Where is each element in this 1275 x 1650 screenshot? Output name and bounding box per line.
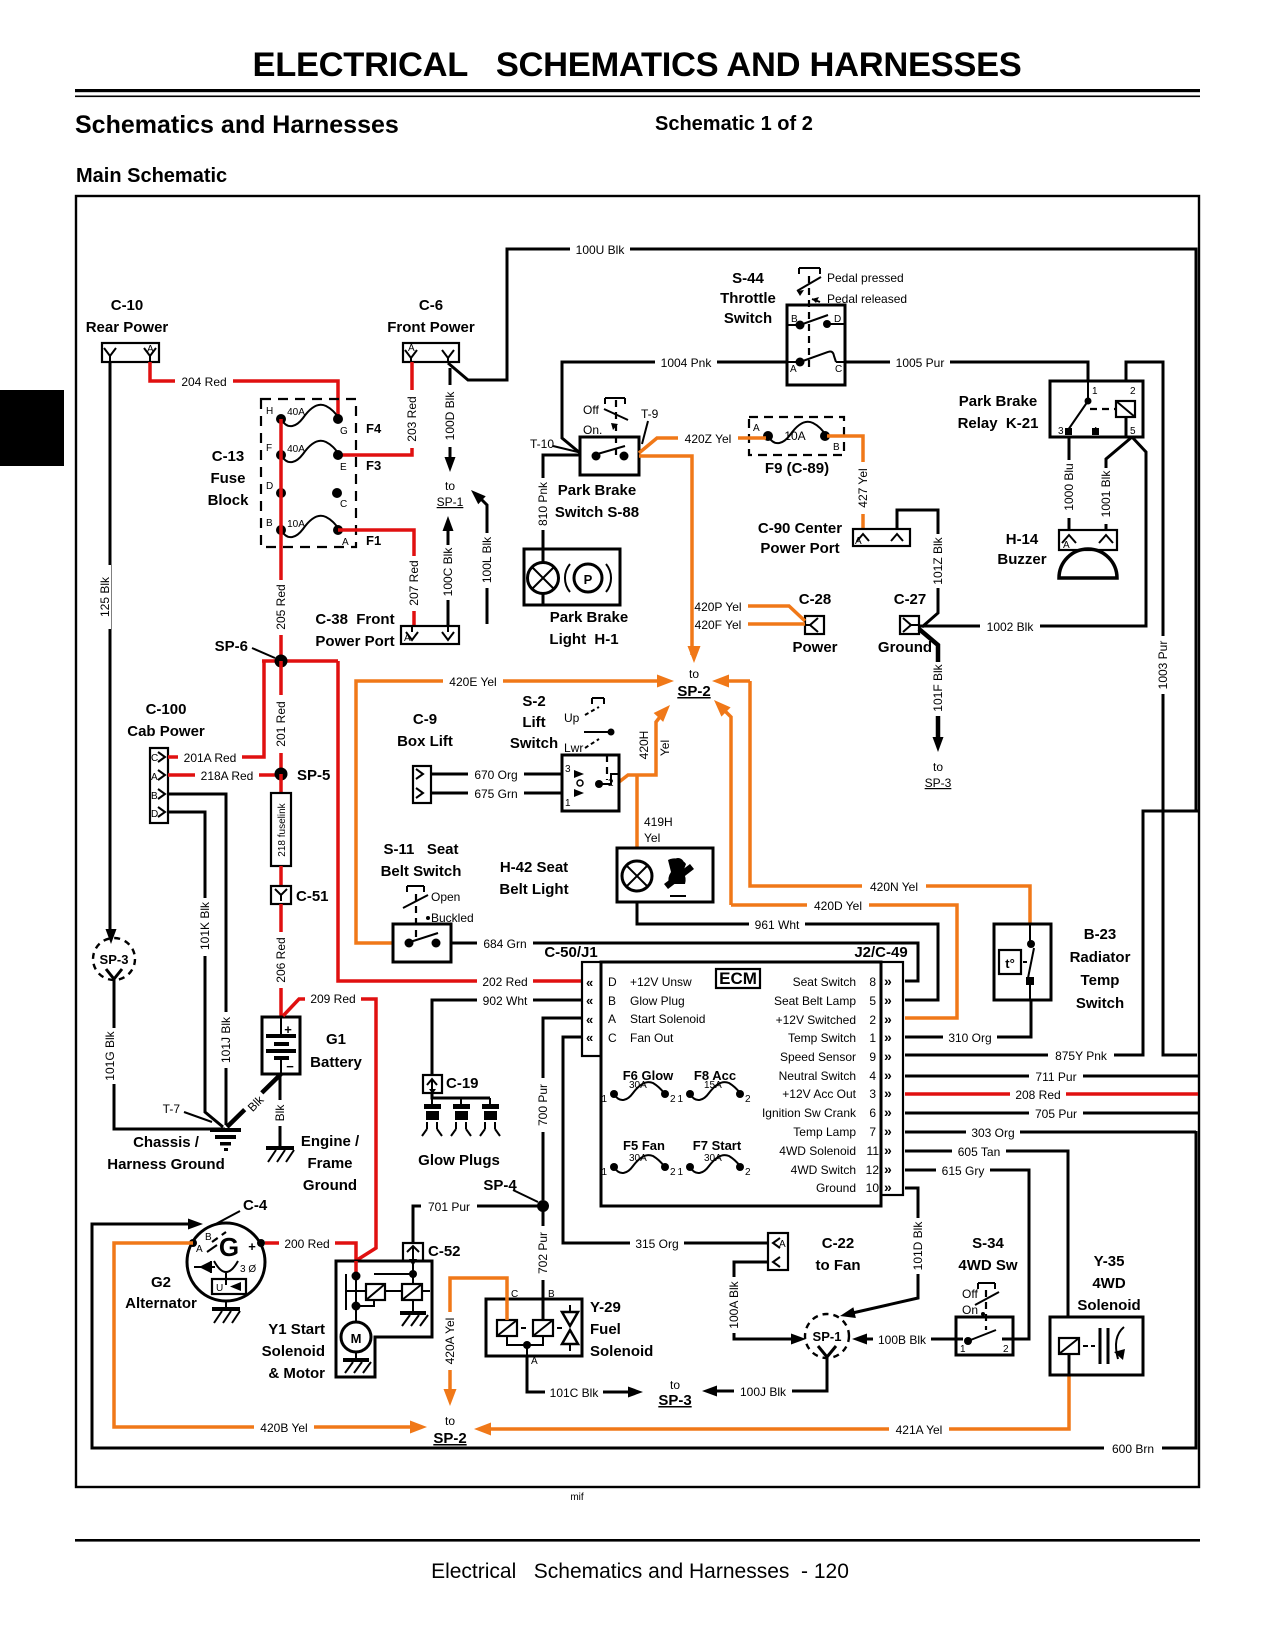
svg-text:Fuel: Fuel bbox=[590, 1321, 621, 1338]
svg-text:+12V Switched: +12V Switched bbox=[776, 1013, 856, 1027]
svg-text:100C Blk: 100C Blk bbox=[441, 547, 455, 597]
svg-text:C-4: C-4 bbox=[243, 1197, 268, 1214]
svg-text:420E Yel: 420E Yel bbox=[449, 675, 496, 689]
svg-text:F: F bbox=[266, 443, 272, 454]
svg-text:205 Red: 205 Red bbox=[274, 584, 288, 629]
svg-text:100J Blk: 100J Blk bbox=[740, 1385, 787, 1399]
svg-text:Seat Belt Lamp: Seat Belt Lamp bbox=[774, 994, 856, 1008]
alternator G2 bbox=[125, 1197, 268, 1323]
svg-text:H-14: H-14 bbox=[1006, 531, 1039, 548]
svg-text:Y-29: Y-29 bbox=[590, 1299, 621, 1316]
connector C-38 Front Power Port bbox=[315, 611, 459, 650]
svg-text:Solenoid: Solenoid bbox=[262, 1343, 325, 1360]
4WD switch S-34 bbox=[956, 1235, 1018, 1355]
battery G1 bbox=[262, 1017, 363, 1074]
throttle switch S-44 bbox=[720, 268, 907, 385]
wire 875Y Pnk label bbox=[1048, 1048, 1114, 1063]
svg-text:H: H bbox=[266, 406, 273, 417]
connector C-51 bbox=[271, 866, 329, 905]
svg-text:B: B bbox=[548, 1289, 555, 1300]
svg-text:»: » bbox=[884, 1048, 892, 1064]
svg-text:J2/C-49: J2/C-49 bbox=[854, 944, 907, 961]
svg-text:»: » bbox=[884, 992, 892, 1008]
wire 1003 Pur bbox=[1126, 362, 1197, 1055]
svg-text:»: » bbox=[884, 1142, 892, 1158]
svg-text:30A: 30A bbox=[629, 1153, 647, 1164]
svg-text:1: 1 bbox=[1092, 386, 1098, 397]
svg-text:Electrical Schematics and Ha: Electrical Schematics and Harnesses - 12… bbox=[431, 1560, 849, 1583]
wire 420P Yel bbox=[688, 599, 805, 621]
wire 675 Grn bbox=[431, 786, 562, 801]
svg-text:Power Port: Power Port bbox=[760, 540, 839, 557]
svg-text:810 Pnk: 810 Pnk bbox=[536, 481, 550, 526]
svg-text:310 Org: 310 Org bbox=[948, 1031, 991, 1045]
svg-text:A: A bbox=[855, 536, 862, 547]
svg-text:C-27: C-27 bbox=[894, 591, 927, 608]
svg-text:Switch: Switch bbox=[510, 735, 558, 752]
svg-text:& Motor: & Motor bbox=[268, 1365, 325, 1382]
wire 100B Blk bbox=[852, 1332, 963, 1347]
wire 615 Gry bbox=[905, 1163, 1029, 1339]
wire 1005 Pur bbox=[845, 355, 1088, 381]
connector C-10 Rear Power bbox=[86, 297, 169, 362]
svg-text:Off: Off bbox=[962, 1287, 978, 1301]
wire 303 Org bbox=[905, 1125, 1196, 1140]
svg-text:»: » bbox=[884, 1067, 892, 1083]
svg-text:F1: F1 bbox=[366, 533, 381, 548]
svg-text:F5 Fan: F5 Fan bbox=[623, 1138, 665, 1153]
wire 670 Org bbox=[431, 767, 562, 782]
svg-text:600 Brn: 600 Brn bbox=[1112, 1442, 1154, 1456]
svg-text:101D Blk: 101D Blk bbox=[911, 1221, 925, 1271]
svg-text:Blk: Blk bbox=[273, 1104, 287, 1122]
svg-text:A: A bbox=[608, 1012, 616, 1026]
title double rule bbox=[75, 89, 1200, 92]
svg-text:1: 1 bbox=[677, 1094, 683, 1105]
svg-text:420H: 420H bbox=[637, 731, 651, 760]
svg-text:SP-3: SP-3 bbox=[925, 776, 952, 790]
svg-text:SP-5: SP-5 bbox=[297, 767, 330, 784]
svg-text:Temp: Temp bbox=[1081, 972, 1120, 989]
engine / frame ground bbox=[266, 1133, 360, 1194]
svg-text:A: A bbox=[790, 364, 797, 375]
svg-text:420P Yel: 420P Yel bbox=[694, 600, 741, 614]
svg-text:B: B bbox=[833, 442, 840, 453]
wire 419H Yel bbox=[637, 775, 673, 848]
ECM fuse F5 Fan bbox=[601, 1138, 676, 1178]
connector C-22 to Fan bbox=[768, 1233, 861, 1274]
svg-text:2: 2 bbox=[745, 1094, 751, 1105]
svg-text:Temp Lamp: Temp Lamp bbox=[793, 1125, 856, 1139]
splice SP-3 bbox=[93, 938, 135, 990]
svg-text:»: » bbox=[884, 1085, 892, 1101]
svg-text:100U Blk: 100U Blk bbox=[576, 243, 626, 257]
svg-text:SP-3: SP-3 bbox=[658, 1392, 691, 1409]
svg-text:C-51: C-51 bbox=[296, 888, 329, 905]
wire 427 Yel bbox=[827, 436, 870, 529]
svg-text:to: to bbox=[445, 1414, 455, 1428]
park brake switch S-88 bbox=[530, 398, 659, 521]
svg-text:8: 8 bbox=[869, 975, 876, 989]
svg-text:Schematic 1 of 2: Schematic 1 of 2 bbox=[655, 113, 813, 135]
connector C-52 bbox=[403, 1243, 461, 1266]
svg-text:Park Brake: Park Brake bbox=[959, 393, 1037, 410]
svg-text:Ground: Ground bbox=[816, 1181, 856, 1195]
svg-text:Throttle: Throttle bbox=[720, 290, 776, 307]
svg-text:3: 3 bbox=[565, 764, 571, 775]
svg-text:4WD: 4WD bbox=[1092, 1275, 1126, 1292]
svg-text:«: « bbox=[586, 993, 593, 1008]
svg-text:SP-2: SP-2 bbox=[433, 1430, 466, 1447]
wire 1002 Blk bbox=[920, 437, 1146, 634]
svg-text:1000 Blu: 1000 Blu bbox=[1062, 463, 1076, 510]
node to SP-3 bottom bbox=[658, 1378, 691, 1409]
wire 605 Tan bbox=[905, 1144, 1068, 1317]
wire 701 Pur bbox=[413, 1199, 543, 1243]
svg-text:F3: F3 bbox=[366, 458, 381, 473]
svg-text:Relay K-21: Relay K-21 bbox=[958, 415, 1039, 432]
wire 420N Yel bbox=[712, 675, 1030, 925]
svg-text:Power Port: Power Port bbox=[315, 633, 394, 650]
svg-text:4: 4 bbox=[869, 1069, 876, 1083]
svg-text:Speed Sensor: Speed Sensor bbox=[780, 1050, 856, 1064]
svg-text:+12V Acc Out: +12V Acc Out bbox=[782, 1087, 856, 1101]
fuselink 218 bbox=[271, 774, 291, 866]
wire 202 Red bbox=[338, 661, 582, 989]
svg-text:C-28: C-28 bbox=[799, 591, 832, 608]
cab power connector C-100 bbox=[127, 701, 205, 823]
svg-text:mif: mif bbox=[570, 1492, 584, 1503]
wire 100L Blk bbox=[467, 486, 494, 624]
svg-text:+12V Unsw: +12V Unsw bbox=[630, 975, 692, 989]
svg-text:A: A bbox=[151, 772, 158, 783]
svg-text:C-50/J1: C-50/J1 bbox=[544, 944, 597, 961]
wire 101F Blk bbox=[919, 629, 952, 790]
svg-text:1005 Pur: 1005 Pur bbox=[896, 356, 945, 370]
svg-text:Solenoid: Solenoid bbox=[1077, 1297, 1140, 1314]
svg-text:701 Pur: 701 Pur bbox=[428, 1200, 470, 1214]
svg-text:to: to bbox=[445, 479, 455, 493]
svg-text:SP-1: SP-1 bbox=[437, 495, 464, 509]
node to SP-1 bbox=[437, 479, 464, 509]
svg-text:On.: On. bbox=[583, 423, 602, 437]
svg-text:2: 2 bbox=[1003, 1344, 1009, 1355]
svg-text:SP-2: SP-2 bbox=[677, 683, 710, 700]
svg-text:30A: 30A bbox=[629, 1080, 647, 1091]
svg-text:Switch S-88: Switch S-88 bbox=[555, 504, 639, 521]
svg-text:C: C bbox=[608, 1031, 617, 1045]
wire 810 Pnk bbox=[536, 455, 580, 564]
svg-text:»: » bbox=[884, 973, 892, 989]
svg-text:T-9: T-9 bbox=[641, 407, 659, 421]
wire 101G Blk bbox=[103, 988, 225, 1129]
svg-text:303 Org: 303 Org bbox=[971, 1126, 1014, 1140]
svg-text:101J Blk: 101J Blk bbox=[219, 1016, 233, 1063]
svg-text:12: 12 bbox=[866, 1163, 880, 1177]
svg-text:Belt Switch: Belt Switch bbox=[381, 863, 462, 880]
svg-text:Seat Switch: Seat Switch bbox=[793, 975, 856, 989]
svg-text:201A Red: 201A Red bbox=[184, 751, 237, 765]
svg-text:C-22: C-22 bbox=[822, 1235, 855, 1252]
wire 100U Blk bbox=[448, 242, 1198, 1055]
svg-text:Solenoid: Solenoid bbox=[590, 1343, 653, 1360]
svg-text:»: » bbox=[884, 1029, 892, 1045]
ECM connector C-50/J1 pins bbox=[582, 962, 705, 1056]
svg-text:Power: Power bbox=[792, 639, 837, 656]
svg-text:Buzzer: Buzzer bbox=[997, 551, 1046, 568]
svg-text:1: 1 bbox=[601, 1167, 607, 1178]
park brake relay K-21 bbox=[958, 381, 1143, 437]
svg-text:125 Blk: 125 Blk bbox=[98, 576, 112, 617]
wire 218A Red bbox=[168, 768, 281, 783]
svg-text:1002 Blk: 1002 Blk bbox=[987, 620, 1035, 634]
svg-text:218A Red: 218A Red bbox=[201, 769, 254, 783]
svg-text:C-52: C-52 bbox=[428, 1243, 461, 1260]
wire 315 Org bbox=[563, 1037, 768, 1251]
svg-text:F7 Start: F7 Start bbox=[693, 1138, 742, 1153]
connector C-27 Ground bbox=[878, 591, 932, 656]
svg-text:Temp Switch: Temp Switch bbox=[788, 1031, 856, 1045]
svg-text:SP-6: SP-6 bbox=[215, 638, 248, 655]
svg-text:421A Yel: 421A Yel bbox=[896, 1423, 943, 1437]
wire 101J Blk bbox=[168, 794, 233, 1125]
svg-text:Ignition Sw Crank: Ignition Sw Crank bbox=[762, 1106, 857, 1120]
svg-text:1: 1 bbox=[960, 1344, 966, 1355]
schematic border bbox=[76, 196, 1199, 1487]
svg-text:S-11 Seat: S-11 Seat bbox=[383, 841, 458, 858]
svg-text:1: 1 bbox=[565, 798, 571, 809]
svg-text:208 Red: 208 Red bbox=[1015, 1088, 1060, 1102]
svg-text:30A: 30A bbox=[704, 1153, 722, 1164]
wire 205 Red fuse rail bbox=[274, 419, 288, 661]
svg-text:1004 Pnk: 1004 Pnk bbox=[661, 356, 713, 370]
wire 207 Red bbox=[338, 530, 421, 626]
svg-text:A: A bbox=[753, 423, 760, 434]
svg-text:203 Red: 203 Red bbox=[405, 396, 419, 441]
svg-text:420F Yel: 420F Yel bbox=[695, 618, 742, 632]
wire 310 Org bbox=[905, 1000, 1031, 1045]
svg-text:9: 9 bbox=[869, 1050, 876, 1064]
svg-text:B: B bbox=[266, 518, 273, 529]
wire 711 Pur bbox=[905, 1069, 1198, 1084]
svg-text:3: 3 bbox=[869, 1087, 876, 1101]
svg-text:«: « bbox=[586, 1030, 593, 1045]
svg-text:615 Gry: 615 Gry bbox=[942, 1164, 985, 1178]
svg-text:A: A bbox=[404, 633, 411, 644]
svg-text:Light H-1: Light H-1 bbox=[549, 631, 618, 648]
svg-text:7: 7 bbox=[869, 1125, 876, 1139]
wire 101K Blk bbox=[168, 812, 223, 1127]
node SP-6 bbox=[215, 638, 338, 668]
svg-text:2: 2 bbox=[745, 1167, 751, 1178]
svg-text:419H: 419H bbox=[644, 815, 673, 829]
wire 420F Yel bbox=[688, 617, 805, 632]
svg-text:2: 2 bbox=[869, 1013, 876, 1027]
svg-text:ELECTRICAL SCHEMATICS AND HA: ELECTRICAL SCHEMATICS AND HARNESSES bbox=[252, 46, 1021, 84]
svg-text:T-10: T-10 bbox=[530, 437, 554, 451]
svg-text:«: « bbox=[586, 975, 593, 990]
svg-text:100A Blk: 100A Blk bbox=[727, 1280, 741, 1328]
svg-text:5: 5 bbox=[1130, 426, 1136, 437]
wire 1001 Blk bbox=[1099, 437, 1132, 530]
node SP-4 bbox=[483, 1177, 549, 1212]
wire 100J Blk bbox=[702, 1366, 827, 1399]
svg-text:F4: F4 bbox=[366, 421, 382, 436]
svg-text:B: B bbox=[205, 1232, 212, 1243]
connector C-9 Box Lift bbox=[397, 711, 453, 803]
svg-text:4WD Sw: 4WD Sw bbox=[958, 1257, 1018, 1274]
svg-text:3 Ø: 3 Ø bbox=[240, 1264, 256, 1275]
svg-text:»: » bbox=[884, 1179, 892, 1195]
svg-text:+: + bbox=[248, 1239, 256, 1254]
svg-text:1001 Blk: 1001 Blk bbox=[1099, 470, 1113, 518]
svg-text:Radiator: Radiator bbox=[1070, 949, 1131, 966]
svg-text:101K Blk: 101K Blk bbox=[198, 901, 212, 950]
wire 100D Blk bbox=[443, 368, 457, 472]
svg-text:P: P bbox=[584, 572, 593, 587]
svg-text:207 Red: 207 Red bbox=[407, 560, 421, 605]
ECM connector J2/C-49 pins bbox=[762, 962, 903, 1195]
wire 961 Wht bbox=[637, 902, 938, 1000]
ECM module bbox=[544, 944, 907, 1206]
wire 700 Pur bbox=[536, 1018, 582, 1200]
connector C-6 Front Power bbox=[387, 297, 475, 362]
svg-text:B: B bbox=[151, 791, 158, 802]
wire 902 Wht bbox=[432, 993, 582, 1075]
svg-text:1: 1 bbox=[601, 1094, 607, 1105]
wire 420A Yel bbox=[443, 1278, 507, 1406]
wire 100C Blk bbox=[441, 516, 455, 626]
svg-text:A: A bbox=[779, 1239, 786, 1250]
svg-text:to: to bbox=[689, 667, 699, 681]
wire 1004 Pnk bbox=[562, 355, 787, 453]
svg-text:G: G bbox=[219, 1232, 239, 1262]
svg-text:C-90 Center: C-90 Center bbox=[758, 520, 842, 537]
svg-text:Yel: Yel bbox=[644, 831, 660, 845]
svg-text:«: « bbox=[586, 1012, 593, 1027]
svg-text:t°: t° bbox=[1005, 956, 1015, 971]
ECM fuse F8 Acc bbox=[677, 1068, 751, 1105]
ECM fuse F7 Start bbox=[677, 1138, 751, 1178]
svg-text:to: to bbox=[933, 760, 943, 774]
svg-text:Off: Off bbox=[583, 403, 599, 417]
svg-text:2: 2 bbox=[670, 1094, 676, 1105]
seat belt light H-42 bbox=[499, 848, 713, 902]
wire 125 Blk bbox=[98, 362, 117, 944]
fuse block C-13 bbox=[208, 399, 382, 548]
svg-text:A: A bbox=[531, 1356, 538, 1367]
svg-text:206 Red: 206 Red bbox=[274, 937, 288, 982]
svg-text:Glow Plug: Glow Plug bbox=[630, 994, 685, 1008]
svg-text:Lwr: Lwr bbox=[564, 741, 583, 755]
node to SP-2 bbox=[677, 667, 710, 700]
svg-text:Battery: Battery bbox=[310, 1054, 362, 1071]
svg-text:204 Red: 204 Red bbox=[181, 375, 226, 389]
svg-text:670 Org: 670 Org bbox=[474, 768, 517, 782]
svg-text:Switch: Switch bbox=[1076, 995, 1124, 1012]
center power port C-90 bbox=[758, 520, 910, 557]
svg-text:Cab Power: Cab Power bbox=[127, 723, 205, 740]
svg-text:420Z Yel: 420Z Yel bbox=[685, 432, 732, 446]
svg-text:101G Blk: 101G Blk bbox=[103, 1030, 117, 1080]
svg-text:»: » bbox=[884, 1161, 892, 1177]
svg-text:200 Red: 200 Red bbox=[284, 1237, 329, 1251]
glow plugs bbox=[418, 1093, 500, 1169]
left edge black tab bbox=[0, 390, 64, 466]
wire 204 Red bbox=[150, 362, 338, 419]
svg-text:−: − bbox=[286, 1059, 294, 1074]
wire battery negative to engine ground bbox=[273, 1074, 287, 1146]
svg-text:D: D bbox=[608, 975, 617, 989]
svg-text:SP-3: SP-3 bbox=[100, 952, 129, 967]
svg-text:to Fan: to Fan bbox=[816, 1257, 861, 1274]
wire 600 Brn and alternator B loop bbox=[92, 1131, 1196, 1456]
svg-text:902 Wht: 902 Wht bbox=[483, 994, 528, 1008]
wire 420H Yel bbox=[619, 701, 675, 782]
svg-text:C-100: C-100 bbox=[146, 701, 187, 718]
svg-text:684 Grn: 684 Grn bbox=[483, 937, 526, 951]
wire 420Z Yel bbox=[639, 431, 766, 453]
buzzer H-14 bbox=[997, 530, 1117, 578]
wire 203 Red bbox=[340, 362, 419, 455]
svg-text:Main Schematic: Main Schematic bbox=[76, 165, 227, 187]
wire 420E Yel bbox=[356, 674, 674, 943]
svg-text:Start Solenoid: Start Solenoid bbox=[630, 1012, 705, 1026]
svg-text:C: C bbox=[835, 364, 842, 375]
svg-text:Yel: Yel bbox=[658, 740, 672, 756]
svg-text:B: B bbox=[608, 994, 616, 1008]
svg-text:700 Pur: 700 Pur bbox=[536, 1084, 550, 1126]
svg-text:Park Brake: Park Brake bbox=[558, 482, 636, 499]
4WD solenoid Y-35 bbox=[1050, 1253, 1143, 1375]
svg-text:C-13: C-13 bbox=[212, 448, 245, 465]
svg-text:H-42 Seat: H-42 Seat bbox=[500, 859, 568, 876]
footer rule bbox=[75, 1539, 1200, 1542]
svg-text:101C Blk: 101C Blk bbox=[550, 1386, 600, 1400]
svg-text:C: C bbox=[151, 753, 158, 764]
svg-text:A: A bbox=[1063, 540, 1070, 551]
svg-text:C-19: C-19 bbox=[446, 1075, 479, 1092]
svg-text:F9 (C-89): F9 (C-89) bbox=[765, 460, 829, 477]
svg-text:Block: Block bbox=[208, 492, 250, 509]
svg-text:Lift: Lift bbox=[522, 714, 545, 731]
fuel solenoid Y-29 bbox=[486, 1289, 653, 1367]
svg-text:Fuse: Fuse bbox=[210, 470, 245, 487]
svg-text:C-6: C-6 bbox=[419, 297, 443, 314]
svg-text:1: 1 bbox=[677, 1167, 683, 1178]
svg-text:Y-35: Y-35 bbox=[1094, 1253, 1125, 1270]
svg-text:100L Blk: 100L Blk bbox=[480, 536, 494, 583]
lift switch S-2 bbox=[510, 693, 619, 811]
svg-text:Open: Open bbox=[431, 890, 460, 904]
svg-text:Neutral Switch: Neutral Switch bbox=[779, 1069, 856, 1083]
svg-text:A: A bbox=[342, 537, 349, 548]
svg-text:101F Blk: 101F Blk bbox=[931, 663, 945, 711]
svg-text:Pedal released: Pedal released bbox=[827, 292, 907, 306]
svg-text:705 Pur: 705 Pur bbox=[1035, 1107, 1077, 1121]
svg-text:Front Power: Front Power bbox=[387, 319, 475, 336]
svg-text:Alternator: Alternator bbox=[125, 1295, 197, 1312]
svg-text:420B Yel: 420B Yel bbox=[260, 1421, 307, 1435]
svg-text:Schematics and Harnesses: Schematics and Harnesses bbox=[75, 111, 399, 139]
seat belt switch S-11 bbox=[381, 841, 474, 962]
svg-text:S-2: S-2 bbox=[522, 693, 545, 710]
svg-text:C-38 Front: C-38 Front bbox=[315, 611, 394, 628]
svg-text:40A: 40A bbox=[287, 407, 305, 418]
svg-text:G2: G2 bbox=[151, 1274, 171, 1291]
svg-text:Switch: Switch bbox=[724, 310, 772, 327]
wire 101D Blk bbox=[839, 1188, 925, 1321]
